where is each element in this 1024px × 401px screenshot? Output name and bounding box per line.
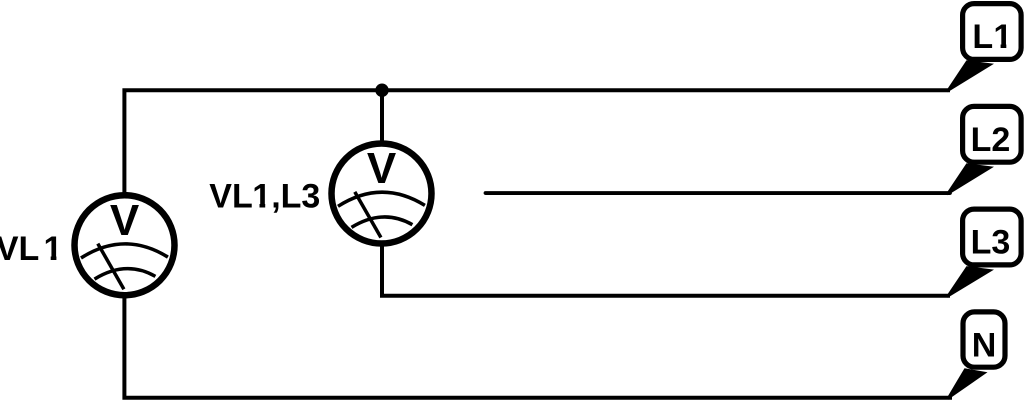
- terminal L1: [948, 4, 1022, 93]
- terminal L3: [948, 209, 1022, 298]
- svg-text:VL: VL: [209, 178, 252, 216]
- voltmeter VL1: [75, 195, 175, 295]
- svg-text:,L3: ,L3: [271, 178, 320, 216]
- wire N bottom with left vertical from voltmeter VL1: [124, 297, 952, 398]
- svg-text:L: L: [972, 18, 993, 56]
- svg-text:1: 1: [252, 178, 271, 216]
- wire from junction down to voltmeter VL1,L3: [380, 90, 384, 141]
- svg-text:L3: L3: [971, 224, 1011, 262]
- svg-text:L2: L2: [971, 121, 1011, 159]
- voltmeter VL1,L3: [332, 144, 432, 244]
- wire L3 from voltmeter VL1,L3 bottom: [382, 245, 950, 296]
- svg-text:1: 1: [44, 230, 63, 268]
- terminal N: [948, 312, 1005, 400]
- svg-text:1: 1: [993, 18, 1012, 56]
- wire L1 top with left vertical drop to voltmeter VL1: [124, 90, 950, 193]
- terminal L2: [948, 106, 1022, 195]
- svg-text:N: N: [972, 327, 997, 365]
- svg-text:V: V: [367, 144, 397, 193]
- junction node: [375, 84, 388, 97]
- wire L2: [486, 191, 951, 195]
- svg-text:V: V: [110, 196, 140, 245]
- svg-text:VL: VL: [0, 230, 39, 268]
